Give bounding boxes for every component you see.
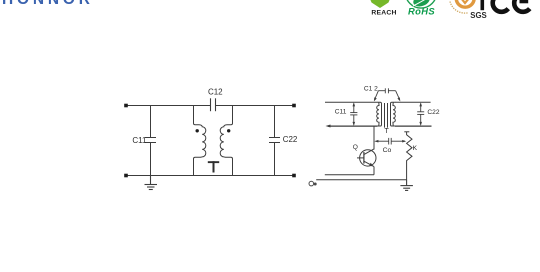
wire: top rail right segment xyxy=(395,101,431,103)
svg-text:RoHS: RoHS xyxy=(408,6,435,17)
node: bottom-left terminal xyxy=(124,174,128,178)
wire: collector drop from bottom rail xyxy=(373,126,375,150)
node: bottom-right terminal xyxy=(292,174,296,178)
svg-text:C12: C12 xyxy=(208,88,223,97)
wire: lower horizontal to ground xyxy=(316,179,406,181)
varistor K body xyxy=(407,132,412,180)
SGS mark text xyxy=(470,11,486,20)
REACH mark text xyxy=(371,10,396,17)
arrowhead C11 top xyxy=(353,102,356,106)
REACH mark green arrow xyxy=(371,0,390,8)
arrowhead C22 bottom xyxy=(419,122,422,126)
transistor Q base bar xyxy=(363,152,365,164)
svg-text:Q: Q xyxy=(353,144,358,151)
node: top-right terminal xyxy=(292,104,296,108)
node: top-left terminal xyxy=(124,104,128,108)
wire: top rail right segment xyxy=(216,105,295,107)
arrowhead C22 top xyxy=(419,102,422,106)
label T (left schematic) xyxy=(208,161,219,172)
transformer T (right) core line 1 xyxy=(384,103,386,128)
wire: bottom rail xyxy=(126,175,294,177)
arrowhead Co left xyxy=(374,140,378,143)
brand logo text (top-left, cropped at top edge) xyxy=(2,0,94,8)
phase dot right xyxy=(227,129,230,132)
capacitor C22 (right schematic) xyxy=(417,104,424,125)
wire: bottom rail right segment xyxy=(395,125,432,127)
wire: emitter down segment xyxy=(373,167,375,175)
transistor Q collector lead xyxy=(364,149,374,155)
svg-text:SGS: SGS xyxy=(470,11,486,20)
arrowhead C11 bottom xyxy=(353,122,356,126)
capacitor C12 xyxy=(211,98,216,111)
svg-text:K: K xyxy=(413,145,418,152)
transformer T left winding xyxy=(194,106,206,176)
capacitor Co xyxy=(376,138,406,145)
arrowhead C12 left diagonal xyxy=(374,97,377,101)
transformer T right winding xyxy=(220,106,232,176)
svg-text:T: T xyxy=(384,128,389,135)
capacitor C11 (right schematic) xyxy=(350,104,357,125)
transformer T (right) core line 2 xyxy=(387,103,389,128)
arrowhead: bottom-left rail end xyxy=(326,125,331,128)
transistor Q emitter lead xyxy=(364,161,374,166)
ground (left schematic) xyxy=(145,176,158,190)
svg-text:C11: C11 xyxy=(335,108,347,115)
transistor Q circle xyxy=(360,150,376,166)
black bar (cropped logo stem) xyxy=(481,0,485,10)
transformer T (right) right winding xyxy=(391,102,396,126)
varistor K top tick xyxy=(404,131,409,133)
arrowhead C12 right diagonal xyxy=(397,97,400,101)
transistor Q base lead xyxy=(357,157,364,159)
capacitor C12 (right schematic) bridge xyxy=(375,88,400,99)
wire: top rail left segment with winding lead-in xyxy=(325,101,377,103)
terminal phi xyxy=(309,181,317,186)
wire: top rail left segment xyxy=(126,105,211,107)
RoHS mark text xyxy=(408,6,435,17)
RoHS mark circle xyxy=(405,0,436,9)
arrowhead emitter xyxy=(369,163,373,167)
svg-text:C1 2: C1 2 xyxy=(364,85,378,92)
arrowhead Co right xyxy=(402,140,406,143)
transformer T (right) left winding xyxy=(377,102,382,126)
wire: emitter horizontal xyxy=(325,174,374,176)
capacitor C11 xyxy=(145,106,156,176)
svg-text:C11: C11 xyxy=(132,136,147,145)
SGS mark ring xyxy=(450,0,474,13)
svg-text:REACH: REACH xyxy=(371,10,396,17)
svg-text:Co: Co xyxy=(383,147,392,154)
wire: bottom rail left segment xyxy=(328,125,377,127)
ground (right schematic) xyxy=(400,180,413,191)
svg-text:C22: C22 xyxy=(427,109,439,116)
phase dot left xyxy=(196,129,199,132)
svg-text:C22: C22 xyxy=(283,135,298,144)
CE mark xyxy=(493,0,530,12)
capacitor C22 xyxy=(269,106,280,176)
